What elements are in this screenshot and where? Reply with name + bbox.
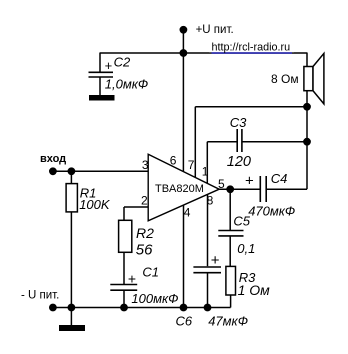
svg-text:http://rcl-radio.ru: http://rcl-radio.ru: [212, 42, 291, 54]
svg-text:R2: R2: [136, 225, 154, 241]
svg-text:0,1: 0,1: [237, 241, 255, 256]
svg-text:1: 1: [202, 164, 209, 178]
svg-text:5: 5: [218, 177, 225, 191]
svg-text:3: 3: [142, 158, 149, 172]
svg-text:2: 2: [141, 194, 148, 208]
svg-text:7: 7: [188, 158, 195, 172]
svg-text:8 Ом: 8 Ом: [271, 72, 299, 86]
svg-text:C1: C1: [142, 265, 159, 280]
svg-text:C6: C6: [176, 313, 193, 328]
svg-text:1 Ом: 1 Ом: [238, 282, 271, 298]
svg-text:+U пит.: +U пит.: [196, 24, 234, 36]
svg-text:470мкФ: 470мкФ: [248, 204, 295, 219]
svg-text:+: +: [105, 58, 113, 73]
svg-text:120: 120: [227, 154, 251, 170]
svg-text:C2: C2: [114, 54, 131, 69]
svg-text:TBA820M: TBA820M: [155, 183, 204, 195]
svg-text:8: 8: [207, 194, 214, 208]
svg-text:47мкФ: 47мкФ: [208, 313, 248, 328]
svg-text:C4: C4: [271, 171, 288, 186]
svg-text:+: +: [245, 173, 254, 190]
svg-text:C5: C5: [233, 213, 250, 228]
svg-text:- U пит.: - U пит.: [21, 290, 59, 302]
svg-text:4: 4: [184, 206, 191, 220]
svg-text:вход: вход: [40, 153, 66, 165]
svg-text:100K: 100K: [79, 197, 111, 212]
svg-text:100мкФ: 100мкФ: [131, 291, 178, 306]
svg-text:+: +: [128, 270, 136, 286]
svg-text:56: 56: [136, 242, 153, 259]
svg-text:C3: C3: [230, 115, 247, 130]
svg-text:+: +: [211, 252, 220, 269]
svg-text:6: 6: [170, 153, 177, 167]
svg-text:1,0мкФ: 1,0мкФ: [105, 76, 148, 91]
